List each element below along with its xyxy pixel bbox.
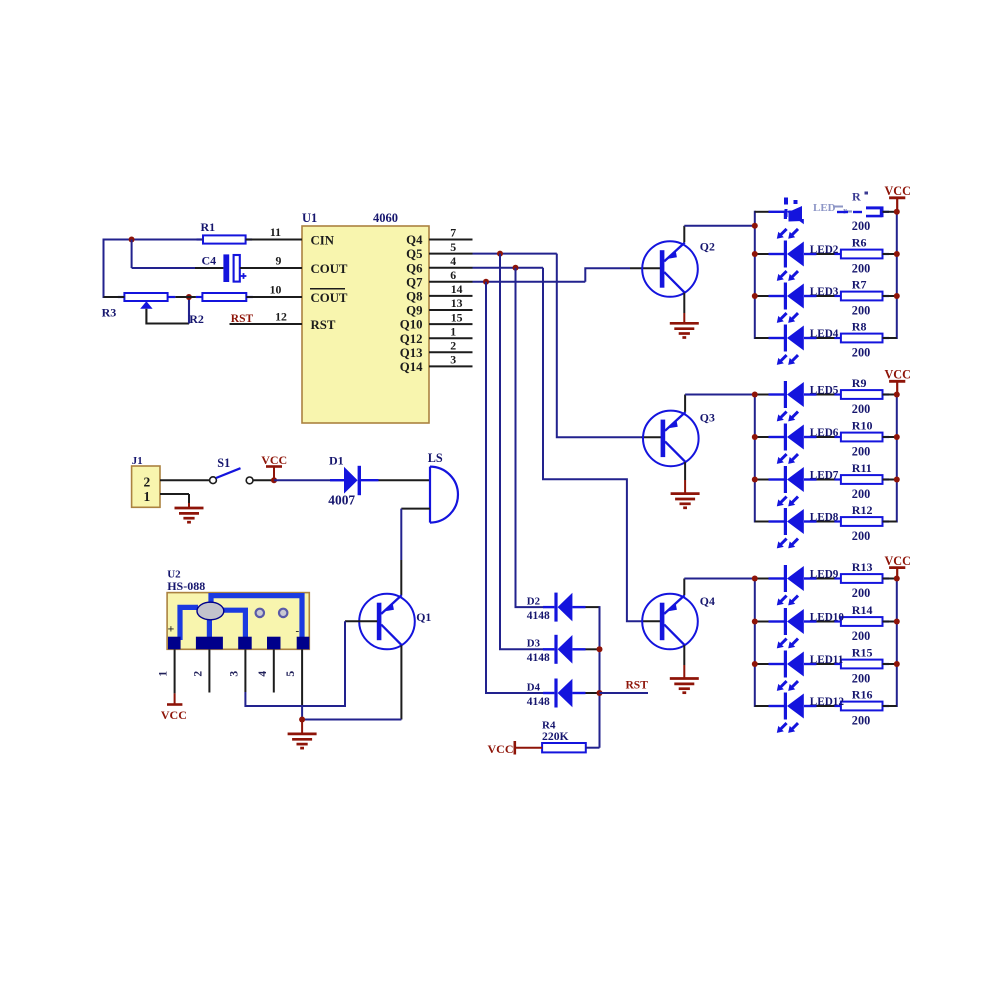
transistor Q1 — [359, 594, 431, 650]
svg-text:200: 200 — [852, 629, 870, 643]
wire LED3 to R7 — [816, 295, 841, 297]
svg-text:4148: 4148 — [527, 610, 550, 622]
svg-text:Q12: Q12 — [400, 332, 423, 346]
svg-text:200: 200 — [852, 487, 870, 501]
svg-text:200: 200 — [852, 303, 870, 317]
svg-text:3: 3 — [450, 353, 456, 367]
svg-text:1: 1 — [144, 489, 151, 504]
wire Q7 junction down to D4 — [486, 282, 544, 693]
svg-text:J1: J1 — [132, 455, 143, 467]
svg-text:LED8: LED8 — [810, 512, 839, 524]
LED LED10 — [769, 608, 845, 648]
svg-text:R14: R14 — [852, 603, 873, 617]
wire R3 wiper loop — [146, 309, 189, 324]
svg-text:Q4: Q4 — [700, 594, 715, 608]
wire LED2 to R6 — [816, 253, 841, 255]
potentiometer R3 — [102, 293, 176, 320]
wire LED6 to R10 — [816, 436, 841, 438]
svg-text:200: 200 — [852, 402, 870, 416]
svg-text:COUT: COUT — [311, 291, 348, 305]
U2 pad 5 — [297, 637, 310, 650]
svg-text:4: 4 — [450, 254, 456, 268]
node junction group 1 right row 2 — [894, 251, 900, 257]
wire U1 pin 6 stub — [429, 281, 473, 283]
U1 pin name /COUT — [310, 289, 348, 305]
wire U2 pin1 — [174, 649, 176, 693]
resistor R2 — [189, 293, 253, 326]
svg-text:R7: R7 — [852, 278, 867, 292]
wire row LED7 left — [755, 479, 770, 481]
power VCC at R4 — [488, 741, 543, 756]
node junction Q6 — [513, 265, 519, 271]
node junction Q7 — [483, 279, 489, 285]
connector J1 — [132, 455, 160, 508]
wire U1 pin 4 stub — [429, 267, 473, 269]
resistor R5 — [834, 193, 889, 233]
wire Q6 junction down to D2 — [516, 268, 544, 607]
svg-text:D4: D4 — [527, 681, 541, 693]
wire Q2 collector to LED bus — [684, 226, 755, 243]
svg-text:LS: LS — [428, 451, 443, 465]
svg-text:200: 200 — [852, 671, 870, 685]
wire /COUT row — [104, 296, 303, 298]
wire COUT row via C4 — [132, 240, 302, 269]
wire U2 pin2 — [208, 649, 210, 692]
node junction R1-left — [129, 237, 135, 243]
U2 internal trace pin5 arc — [211, 596, 302, 640]
svg-text:LED4: LED4 — [810, 328, 839, 340]
svg-text:Q4: Q4 — [406, 233, 423, 247]
svg-text:7: 7 — [450, 226, 456, 240]
wire Q2 emitter down — [683, 293, 685, 324]
svg-text:12: 12 — [275, 310, 287, 324]
wire LED group 3 right bus — [896, 578, 898, 708]
svg-text:LED10: LED10 — [810, 612, 845, 624]
svg-text:RST: RST — [311, 318, 336, 332]
svg-text:VCC: VCC — [884, 368, 910, 382]
svg-text:4007: 4007 — [328, 493, 355, 508]
wire R16 to right bus — [883, 705, 897, 707]
svg-text:4: 4 — [257, 671, 269, 677]
U2 hole left — [256, 609, 264, 617]
wire R10 to right bus — [883, 436, 897, 438]
U2 internal trace pin2 — [207, 618, 212, 640]
wire LED1 to R5 — [816, 211, 841, 213]
resistor R13 — [834, 560, 889, 600]
U2 pad 1 — [168, 637, 181, 650]
wire R5 to right bus — [883, 211, 897, 213]
svg-text:5: 5 — [450, 240, 456, 254]
node junction U2 pin5 ground — [299, 717, 305, 723]
wire Q4 emitter down — [683, 645, 685, 678]
svg-text:Q7: Q7 — [406, 275, 423, 289]
svg-text:R12: R12 — [852, 503, 873, 517]
svg-text:r: r — [843, 206, 847, 216]
wire Q4 collector to LED bus — [684, 579, 755, 596]
wire Q3 collector to LED bus — [685, 395, 755, 412]
svg-text:Q1: Q1 — [416, 610, 431, 624]
wire LED10 to R14 — [816, 621, 841, 623]
wire Q5 to Q3 base — [557, 254, 661, 438]
diode D2 — [527, 593, 586, 622]
U2 pad 4 — [267, 637, 281, 650]
resistor R4 — [542, 719, 586, 752]
wire Q6 to Q4 base — [543, 268, 660, 622]
resistor R6 — [834, 236, 889, 276]
LED LED9 — [769, 565, 839, 605]
svg-text:200: 200 — [852, 529, 870, 543]
node junction group 3 left row 1 — [752, 576, 758, 582]
resistor R12 — [834, 503, 889, 543]
resistor R16 — [834, 688, 889, 728]
svg-text:VCC: VCC — [161, 708, 187, 722]
svg-text:4060: 4060 — [373, 211, 398, 225]
wire U1 pin 13 stub — [429, 309, 473, 311]
power VCC at U2 pin1 — [161, 693, 187, 722]
wire R14 to right bus — [883, 621, 897, 623]
wire U1 pin 2 stub — [429, 351, 473, 353]
wire D3 to bus — [586, 648, 600, 650]
svg-text:+: + — [168, 622, 175, 636]
wire row LED3 left — [755, 295, 770, 297]
svg-text:D1: D1 — [329, 454, 344, 468]
wire R7 to right bus — [883, 295, 897, 297]
LED LED6 — [769, 424, 839, 464]
artifact overlay on LED1 row — [781, 188, 881, 227]
svg-text:R11: R11 — [852, 461, 872, 475]
svg-text:10: 10 — [270, 283, 282, 297]
resistor R10 — [834, 419, 889, 459]
svg-text:2: 2 — [192, 671, 204, 677]
wire D1 to LS — [379, 479, 430, 481]
IC U1 4060 body — [302, 211, 429, 423]
svg-text:Q10: Q10 — [400, 318, 423, 332]
wire LED7 to R11 — [816, 479, 841, 481]
svg-text:R: R — [852, 190, 861, 204]
wire LED group 1 right bus — [896, 211, 898, 339]
svg-text:D2: D2 — [527, 596, 540, 608]
wire LED11 to R15 — [816, 663, 841, 665]
U2 pad 3 — [238, 637, 252, 650]
U2 microphone ellipse — [197, 602, 224, 620]
U2 pad 2 — [196, 637, 223, 650]
svg-text:220K: 220K — [542, 730, 569, 743]
wire S1 to VCC node — [253, 479, 272, 481]
resistor R9 — [834, 376, 889, 416]
power VCC group 3 — [884, 554, 910, 579]
resistor R15 — [834, 646, 889, 686]
wire LED9 to R13 — [816, 578, 841, 580]
node junction D4 bus — [597, 690, 603, 696]
wire row LED2 left — [755, 253, 770, 255]
svg-text:LED12: LED12 — [810, 696, 845, 708]
node junction group 1 right row 1 — [894, 209, 900, 215]
wire Q5 junction down to D3 — [500, 254, 544, 650]
wire CIN row — [104, 239, 303, 241]
node junction group 3 right row 2 — [894, 619, 900, 625]
node junction R2-left — [186, 294, 192, 300]
wire D2 to bus — [586, 606, 600, 608]
svg-text:LED2: LED2 — [810, 244, 839, 256]
svg-text:Q14: Q14 — [400, 360, 423, 374]
wire U1 pin 1 stub — [429, 337, 473, 339]
wire J1 pin2 to S1 — [160, 479, 210, 481]
svg-text:R8: R8 — [852, 320, 867, 334]
resistor R7 — [834, 278, 889, 318]
svg-text:200: 200 — [852, 586, 870, 600]
wire left vertical R1 to R3 — [103, 239, 105, 299]
wire RST net stub — [600, 692, 649, 694]
resistor R14 — [834, 603, 889, 643]
svg-text:VCC: VCC — [884, 184, 910, 198]
wire LED group 3 left bus — [754, 578, 756, 708]
svg-text:Q13: Q13 — [400, 346, 423, 360]
power VCC group 1 — [884, 184, 910, 212]
wire LED5 to R9 — [816, 394, 841, 396]
node junction D3 bus — [597, 646, 603, 652]
node junction Q5 — [497, 251, 503, 257]
svg-text:C4: C4 — [202, 253, 217, 267]
node junction VCC-S1 — [271, 477, 277, 483]
transistor Q3 — [643, 411, 715, 467]
U2 hole right — [279, 609, 287, 617]
LED LED7 — [769, 466, 839, 506]
svg-text:9: 9 — [276, 254, 282, 268]
svg-text:LED: LED — [813, 202, 836, 214]
ground under Q4 — [670, 677, 699, 680]
node junction group 1 left row 2 — [752, 251, 758, 257]
U2 internal trace pin1 — [180, 607, 198, 640]
LED LED1 — [769, 198, 839, 238]
node junction group 2 right row 2 — [894, 434, 900, 440]
power VCC group 2 — [884, 368, 910, 395]
wire LED8 to R12 — [816, 521, 841, 523]
wire Q3 emitter down — [684, 462, 686, 494]
LED LED3 — [769, 283, 839, 323]
svg-text:VCC: VCC — [488, 742, 514, 756]
svg-text:R2: R2 — [189, 312, 204, 326]
wire LED12 to R16 — [816, 705, 841, 707]
node junction group 2 right row 1 — [894, 392, 900, 398]
wire R8 to right bus — [883, 337, 897, 339]
wire row LED4 left — [755, 337, 770, 339]
wire row LED11 left — [755, 663, 770, 665]
ground under J1 — [175, 507, 204, 510]
ground under Q2 — [670, 322, 699, 325]
LED LED5 — [769, 381, 839, 421]
wire D4 to bus — [586, 692, 600, 694]
wire R13 to right bus — [883, 578, 897, 580]
microphone module U2 HS-088 — [167, 569, 309, 650]
wire LED group 2 left bus — [754, 394, 756, 523]
svg-text:R13: R13 — [852, 560, 873, 574]
wire LED group 2 right bus — [896, 394, 898, 523]
svg-text:R16: R16 — [852, 688, 873, 702]
ground under U2 pin5 — [288, 733, 317, 736]
wire row LED1 left — [755, 211, 770, 213]
wire diode bus vertical — [599, 606, 601, 748]
svg-text:4148: 4148 — [527, 696, 550, 708]
wire Q7 to Q2 base — [585, 268, 660, 282]
svg-text:LED3: LED3 — [810, 286, 839, 298]
diode D3 — [527, 635, 586, 664]
speaker LS — [428, 451, 458, 523]
svg-text:VCC: VCC — [884, 554, 910, 568]
svg-text:4148: 4148 — [527, 652, 550, 664]
svg-text:VCC: VCC — [261, 453, 287, 467]
svg-text:R9: R9 — [852, 376, 867, 390]
svg-text:D3: D3 — [527, 638, 541, 650]
wire row LED6 left — [755, 436, 770, 438]
node junction group 3 right row 1 — [894, 576, 900, 582]
svg-text:R1: R1 — [201, 220, 216, 234]
U2 internal trace pin3 — [222, 610, 246, 640]
svg-text:1: 1 — [450, 324, 456, 338]
svg-text:LED11: LED11 — [810, 654, 844, 666]
svg-text:R10: R10 — [852, 419, 873, 433]
svg-text:Q2: Q2 — [700, 240, 715, 254]
wire R6 to right bus — [883, 253, 897, 255]
resistor R1 — [197, 220, 253, 244]
svg-text:13: 13 — [451, 296, 463, 310]
wire Q1 base from U2 pin3 — [345, 620, 377, 622]
svg-text:5: 5 — [285, 671, 297, 677]
svg-text:2: 2 — [450, 339, 456, 353]
wire row LED8 left — [755, 521, 770, 523]
svg-text:CIN: CIN — [311, 233, 335, 247]
LED LED8 — [769, 508, 839, 548]
ground under Q3 — [671, 492, 700, 495]
wire U2 pin3 to Q1 base — [245, 621, 345, 706]
svg-text:6: 6 — [450, 268, 456, 282]
transistor Q4 — [642, 594, 715, 650]
LED LED2 — [769, 241, 839, 281]
svg-text:S1: S1 — [217, 456, 230, 470]
svg-text:U1: U1 — [302, 211, 317, 225]
svg-text:COUT: COUT — [311, 262, 348, 276]
svg-text:R15: R15 — [852, 646, 873, 660]
LED LED12 — [769, 693, 845, 733]
wire row LED10 left — [755, 621, 770, 623]
svg-text:Q9: Q9 — [406, 304, 422, 318]
svg-text:R6: R6 — [852, 236, 867, 250]
wire R9 to right bus — [883, 394, 897, 396]
svg-text:R3: R3 — [102, 306, 117, 320]
node junction group 3 right row 3 — [894, 661, 900, 667]
wire row LED12 left — [755, 705, 770, 707]
wire row LED9 left — [755, 578, 770, 580]
svg-text:LED9: LED9 — [810, 569, 839, 581]
node junction group 2 left row 2 — [752, 434, 758, 440]
wire R11 to right bus — [883, 479, 897, 481]
node junction group 2 left row 3 — [752, 477, 758, 483]
wire LS bottom to Q1 collector — [401, 509, 430, 596]
svg-text:200: 200 — [852, 713, 870, 727]
svg-text:200: 200 — [852, 444, 870, 458]
LED LED11 — [769, 651, 844, 691]
wire VCC node to D1 — [274, 479, 344, 481]
wire Q1 emitter down — [400, 645, 402, 719]
wire LED4 to R8 — [816, 337, 841, 339]
svg-text:LED6: LED6 — [810, 427, 839, 439]
wire LED group 1 left bus — [754, 211, 756, 339]
svg-text:15: 15 — [451, 310, 463, 324]
node junction group 1 transistor join — [752, 223, 758, 229]
resistor R8 — [834, 320, 889, 360]
svg-text:HS-088: HS-088 — [167, 579, 205, 593]
svg-text:11: 11 — [270, 225, 281, 239]
switch S1 — [210, 456, 253, 484]
svg-text:200: 200 — [852, 261, 870, 275]
svg-text:RST: RST — [626, 680, 649, 692]
transistor Q2 — [642, 240, 715, 297]
wire U2 pin5 to ground and Q1 emitter — [302, 649, 401, 734]
svg-text:200: 200 — [852, 345, 870, 359]
capacitor C4 — [202, 253, 247, 282]
svg-text:-: - — [296, 625, 300, 637]
svg-text:200: 200 — [852, 219, 870, 233]
resistor R11 — [834, 461, 889, 501]
wire U1 pin 15 stub — [429, 323, 473, 325]
LED LED4 — [769, 325, 839, 365]
svg-text:2: 2 — [144, 475, 151, 490]
node junction group 1 right row 3 — [894, 293, 900, 299]
node junction group 2 left row 1 — [752, 392, 758, 398]
wire R4 to bus — [586, 747, 600, 749]
power VCC at S1 — [261, 453, 287, 480]
node junction group 3 left row 2 — [752, 619, 758, 625]
wire net Q7 row — [473, 281, 586, 283]
wire R15 to right bus — [883, 663, 897, 665]
wire R12 to right bus — [883, 521, 897, 523]
svg-text:14: 14 — [451, 282, 463, 296]
wire row LED5 left — [755, 394, 770, 396]
diode D4 — [527, 679, 586, 708]
node junction group 1 left row 3 — [752, 293, 758, 299]
wire U1 pin 3 stub — [429, 365, 473, 367]
wire J1 pin1 to ground — [160, 494, 189, 508]
wire RST pin row — [230, 323, 303, 325]
node junction group 2 right row 3 — [894, 477, 900, 483]
svg-text:LED5: LED5 — [810, 385, 839, 397]
wire U1 pin 5 stub — [429, 253, 473, 255]
wire U2 pin4 — [273, 649, 275, 692]
wire U1 pin 7 stub — [429, 239, 473, 241]
svg-text:Q5: Q5 — [406, 247, 422, 261]
svg-text:Q6: Q6 — [406, 261, 423, 275]
diode D1 — [328, 454, 378, 508]
svg-text:3: 3 — [228, 671, 240, 677]
svg-text:Q3: Q3 — [700, 411, 715, 425]
svg-text:Q8: Q8 — [406, 290, 422, 304]
svg-text:1: 1 — [158, 671, 170, 677]
wire net Q5 row — [473, 253, 557, 255]
node junction group 3 left row 3 — [752, 661, 758, 667]
wire net Q6 row — [473, 267, 544, 269]
wire U1 pin 14 stub — [429, 295, 473, 297]
svg-text:LED7: LED7 — [810, 470, 839, 482]
